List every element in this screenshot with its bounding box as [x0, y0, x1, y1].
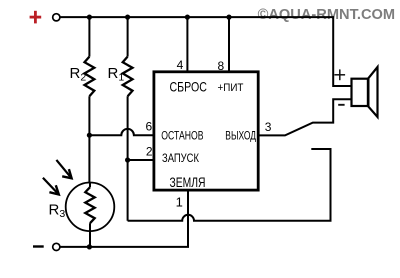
svg-text:3: 3	[265, 120, 272, 134]
svg-text:8: 8	[218, 59, 225, 73]
svg-text:ОСТАНОВ: ОСТАНОВ	[161, 128, 203, 142]
svg-text:4: 4	[177, 58, 184, 72]
svg-text:©AQUA-RMNT.COM: ©AQUA-RMNT.COM	[258, 7, 396, 23]
svg-text:СБРОС: СБРОС	[170, 79, 207, 95]
svg-text:ЗЕМЛЯ: ЗЕМЛЯ	[170, 174, 206, 190]
svg-text:2: 2	[146, 145, 153, 159]
svg-text:6: 6	[146, 119, 153, 133]
svg-text:ЗАПУСК: ЗАПУСК	[162, 151, 199, 165]
svg-text:1: 1	[176, 194, 183, 209]
svg-text:+ПИТ: +ПИТ	[218, 82, 244, 94]
svg-text:ВЫХОД: ВЫХОД	[225, 129, 256, 143]
